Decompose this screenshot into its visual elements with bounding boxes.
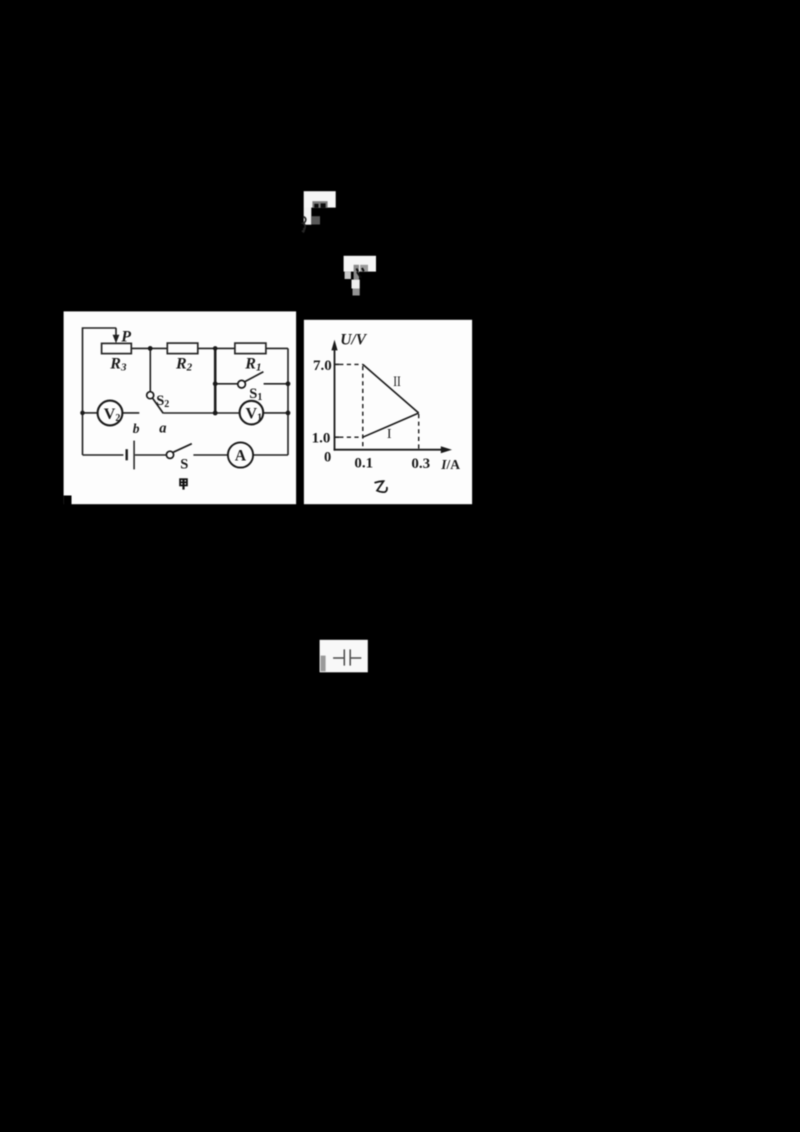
svg-text:U/V: U/V	[340, 331, 368, 348]
svg-text:P: P	[120, 329, 131, 346]
svg-text:I: I	[387, 427, 392, 442]
svg-text:S: S	[180, 457, 188, 473]
svg-text:A: A	[235, 448, 247, 465]
svg-text:0.3: 0.3	[411, 456, 430, 472]
svg-text:a: a	[159, 421, 166, 437]
svg-text:1.0: 1.0	[312, 430, 331, 446]
svg-text:II: II	[393, 373, 401, 390]
svg-text:0.1: 0.1	[354, 456, 373, 472]
svg-text:I/A: I/A	[440, 457, 460, 472]
svg-text:7.0: 7.0	[313, 358, 332, 374]
svg-text:b: b	[133, 421, 140, 436]
svg-text:0: 0	[324, 450, 331, 466]
